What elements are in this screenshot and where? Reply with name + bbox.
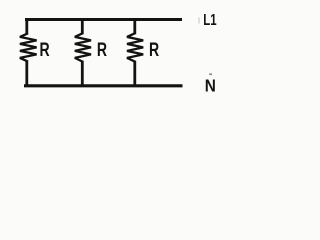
wire: R3 bottom lead [133, 61, 136, 87]
resistor R2 [75, 33, 91, 61]
wire: bottom rail (net N) [24, 84, 183, 87]
svg-text:R: R [40, 39, 50, 61]
wire: top rail (net L1) [25, 18, 182, 21]
svg-text:N: N [205, 77, 216, 96]
svg-text:R: R [149, 39, 159, 61]
wire: R2 top lead [81, 18, 84, 34]
wire: R1 top lead [25, 18, 28, 34]
svg-text:L1: L1 [203, 11, 217, 28]
wire: R2 bottom lead [81, 61, 84, 87]
resistor R3 [127, 33, 143, 61]
wire: R3 top lead [133, 18, 136, 34]
svg-text:R: R [97, 39, 107, 61]
wire: R1 bottom lead [25, 61, 28, 87]
resistor R1 [20, 33, 37, 61]
